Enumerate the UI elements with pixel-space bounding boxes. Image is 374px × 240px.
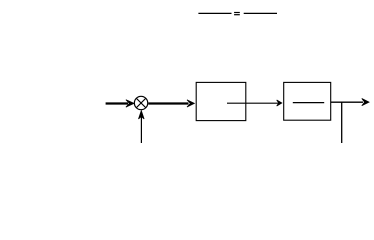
fraction bar inside block G1 — [227, 102, 246, 104]
wire: input arrow into summing junction — [106, 100, 134, 107]
wire: output arrow from block G2 — [331, 99, 369, 106]
block G2 — [284, 82, 331, 120]
wire: feedback into summing junction (vertical, arrow up) — [139, 111, 145, 143]
equation equals sign — [234, 12, 240, 15]
equation right fraction bar — [244, 12, 277, 14]
summing junction — [134, 96, 147, 109]
wire: summing junction to block G1 — [148, 100, 194, 107]
equation left fraction bar — [198, 12, 231, 14]
fraction bar inside block G2 — [293, 102, 324, 104]
wire: block G1 to block G2 — [246, 100, 282, 106]
wire: feedback tap from output line (vertical) — [341, 102, 343, 143]
block G1 — [196, 82, 246, 120]
